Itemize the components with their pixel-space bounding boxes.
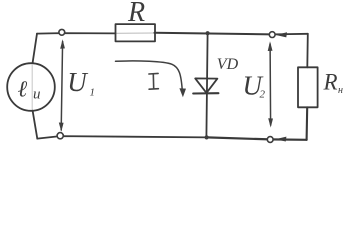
svg-text:U: U <box>67 67 88 97</box>
svg-text:u: u <box>33 87 41 103</box>
svg-text:2: 2 <box>260 89 266 101</box>
svg-text:1: 1 <box>90 87 96 99</box>
svg-text:R: R <box>323 69 338 94</box>
svg-text:R: R <box>127 0 145 28</box>
svg-text:ℓ: ℓ <box>18 77 28 102</box>
svg-text:н: н <box>338 85 343 96</box>
svg-text:VD: VD <box>217 56 239 73</box>
